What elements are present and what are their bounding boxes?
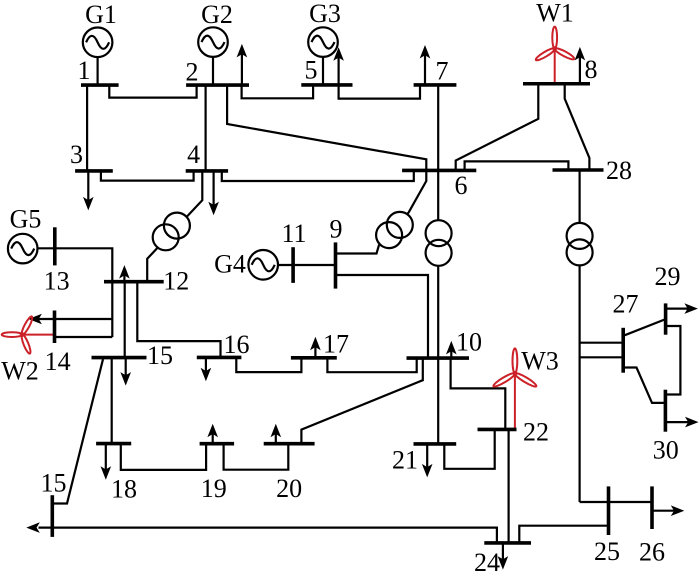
load arrow bus 29 [666, 308, 688, 310]
wire 2-4 [205, 85, 207, 171]
svg-text:5: 5 [305, 56, 318, 85]
load arrow bus 2 [241, 54, 243, 85]
bus 20 [264, 442, 315, 446]
wire 27-30 [623, 368, 665, 403]
bus 27 [621, 328, 625, 373]
wire 10-20 [301, 358, 422, 444]
svg-text:W1: W1 [536, 0, 574, 28]
wire 28-27 tap [580, 342, 624, 344]
wire 9-10 [336, 275, 429, 358]
wire G3-5 [322, 57, 324, 85]
wire 15-18 [111, 358, 113, 444]
svg-text:26: 26 [639, 538, 665, 567]
svg-text:18: 18 [111, 475, 137, 504]
svg-text:13: 13 [44, 267, 70, 296]
wire 14-12 [55, 318, 113, 320]
bus 28 [553, 168, 604, 172]
bus 11 [291, 247, 295, 283]
bus 12 [104, 280, 164, 284]
bus 4 [186, 169, 228, 173]
svg-text:G2: G2 [201, 0, 233, 29]
svg-text:14: 14 [45, 347, 71, 376]
svg-text:G4: G4 [214, 250, 246, 279]
bus 3 [75, 169, 113, 173]
wire 21-22 [444, 429, 494, 468]
load arrow bus 4 [213, 171, 215, 205]
load arrow bus 30 [665, 421, 688, 423]
wire 28-27 via transformer and 25-27 [578, 170, 580, 502]
load arrow bus 20 [275, 434, 277, 444]
bus 21 [414, 442, 457, 446]
wire 1-3 [86, 85, 88, 171]
wire 1-2 [109, 85, 196, 98]
wire W1-8 [554, 49, 556, 84]
wire 27-29 [623, 319, 665, 336]
bus 13 [53, 227, 57, 265]
wire 8-28 [565, 84, 590, 170]
load arrow bus 19 [212, 434, 214, 444]
svg-text:25: 25 [594, 537, 620, 566]
svg-text:19: 19 [201, 474, 227, 503]
bus 6 [402, 169, 476, 173]
wire 10-22 [451, 358, 506, 429]
wire 18-19 [121, 444, 206, 470]
svg-text:16: 16 [224, 330, 250, 359]
svg-text:9: 9 [330, 215, 343, 244]
load arrow bus 16 [205, 357, 207, 371]
bus 1 [81, 83, 119, 87]
generator G5 [8, 234, 38, 264]
wind turbine W3 [492, 348, 537, 388]
wire 19-20 [224, 444, 289, 470]
bus 18 [96, 442, 131, 446]
svg-text:8: 8 [585, 55, 598, 84]
wire G5-13-12 trunk [38, 248, 113, 337]
bus 10 [407, 356, 470, 360]
svg-text:15: 15 [147, 341, 173, 370]
transformer 28-27 [567, 223, 593, 266]
wire 4-6 [222, 170, 414, 181]
svg-text:10: 10 [456, 328, 482, 357]
bus 26 [650, 486, 654, 529]
wire 25-26 [580, 501, 652, 503]
wind turbine W1 [535, 27, 576, 62]
wire G1-1 [96, 57, 98, 85]
bus 2 [186, 83, 249, 87]
wire 24-25 [519, 526, 608, 543]
svg-text:G5: G5 [10, 205, 42, 234]
load arrow bus 15 [125, 358, 127, 376]
svg-text:4: 4 [187, 140, 200, 169]
svg-text:G1: G1 [85, 0, 117, 29]
wire G2-2 [212, 57, 214, 86]
wire 14-15 [55, 336, 113, 338]
load arrow bus 18 [105, 444, 107, 470]
wire 2-5 [242, 85, 314, 98]
wire 15-23 [52, 359, 103, 503]
generator G1 [83, 28, 113, 58]
svg-text:17: 17 [323, 330, 349, 359]
load arrow bus 14 [38, 318, 54, 320]
transformer 6-9 [376, 212, 413, 248]
wire 16-17 [236, 357, 301, 372]
svg-text:27: 27 [613, 290, 639, 319]
svg-text:G3: G3 [309, 0, 341, 28]
wire 2-6 [227, 85, 426, 170]
wire 12-16 [137, 282, 220, 358]
generator G3 [308, 27, 338, 57]
svg-text:11: 11 [281, 219, 306, 248]
wind turbine W2 [2, 315, 34, 354]
load arrow bus 3 [87, 171, 89, 201]
svg-text:6: 6 [455, 171, 468, 200]
bus 17 [291, 356, 337, 360]
wire 4-12 via transformer [147, 171, 202, 282]
wire 7-6-10-21 [437, 85, 439, 444]
load arrow bus 12 [123, 275, 125, 282]
load arrow bus 10 [450, 351, 452, 358]
wire 6-9 via transformer [336, 170, 427, 253]
bus 24 [484, 541, 531, 545]
load arrow bus 26 [652, 510, 674, 512]
bus 15 [92, 356, 147, 360]
bus 23 [50, 495, 54, 537]
wire 6-8 [456, 84, 539, 171]
load arrow bus 23 [26, 522, 40, 533]
generator G4 [248, 250, 278, 280]
load arrow bus 17 [314, 347, 316, 358]
load arrow bus 8 [579, 57, 581, 84]
svg-text:28: 28 [606, 156, 632, 185]
bus 8 [523, 82, 590, 86]
generator G2 [198, 27, 228, 57]
svg-text:20: 20 [276, 474, 302, 503]
wire 5-7 [339, 85, 420, 99]
svg-text:12: 12 [163, 267, 189, 296]
svg-text:30: 30 [653, 436, 679, 465]
bus 14 [53, 311, 57, 344]
wire W3-22 [514, 373, 516, 429]
wire 3-4 [101, 171, 194, 181]
svg-text:22: 22 [523, 418, 549, 447]
wire 12-15 [124, 282, 126, 358]
transformer 4-12 [153, 213, 190, 251]
svg-text:15: 15 [41, 469, 67, 498]
svg-text:W2: W2 [1, 357, 39, 386]
bus 5 [301, 83, 352, 87]
wire 6-28 [465, 161, 569, 170]
svg-text:21: 21 [392, 446, 418, 475]
svg-text:2: 2 [186, 58, 199, 87]
wire G4-9 [278, 264, 336, 266]
bus 7 [414, 83, 457, 87]
wire 29-30 [665, 326, 680, 395]
load arrow bus 7 [424, 55, 426, 85]
svg-text:7: 7 [436, 57, 449, 86]
load arrow bus 5 [338, 57, 340, 85]
bus 30 [664, 390, 668, 432]
wire 25-27 tap [580, 356, 624, 358]
load arrow bus 21 [426, 444, 428, 468]
wire 22-24 [508, 429, 510, 543]
svg-text:3: 3 [70, 140, 83, 169]
bus 22 [478, 428, 517, 432]
wire W2-14 [22, 334, 54, 336]
bus 16 [197, 356, 242, 360]
svg-text:24: 24 [474, 548, 500, 576]
bus 19 [200, 442, 235, 446]
svg-text:1: 1 [78, 56, 91, 85]
bus 25 [607, 486, 611, 535]
wire 17-10 [327, 358, 416, 372]
transformer 6-10 [426, 220, 452, 266]
svg-text:W3: W3 [521, 347, 559, 376]
wire 23-24 [39, 528, 497, 543]
bus 9 [334, 242, 338, 288]
bus 29 [664, 303, 668, 334]
svg-text:29: 29 [655, 262, 681, 291]
load arrow bus 24 [502, 543, 504, 560]
